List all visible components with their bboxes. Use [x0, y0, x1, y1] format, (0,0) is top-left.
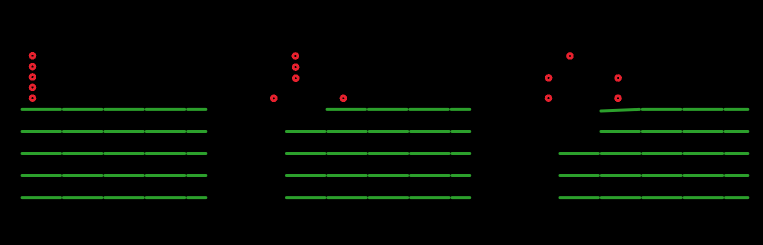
panel 1 marker 2 — [30, 64, 35, 69]
panel 2 marker 2 — [293, 65, 298, 70]
panel 2 marker 1 — [293, 54, 298, 59]
panel 1 string row 4 — [22, 174, 206, 177]
panel 1 string row 1 — [22, 108, 206, 111]
panel 3 marker 4 — [616, 76, 621, 81]
panel 3 marker 3 — [546, 96, 551, 101]
panel 2 string row 3 — [287, 152, 470, 155]
panel 1 marker 4 — [30, 85, 35, 90]
panel 1 marker 1 — [30, 53, 35, 58]
panel 3 marker 2 — [546, 76, 551, 81]
panel 3 marker 1 — [568, 54, 573, 59]
panel 2 marker 5 — [341, 96, 346, 101]
panel 3 string row 5 — [560, 196, 748, 199]
panel 3 string row 2 — [601, 130, 748, 133]
panel 2 string row 1 — [327, 108, 470, 111]
panel 2 marker 4 — [271, 96, 276, 101]
panel 2 string row 5 — [287, 196, 470, 199]
panel 3 string row 3 — [560, 152, 748, 155]
panel 1 marker 5 — [30, 96, 35, 101]
panel 3 marker 5 — [616, 96, 621, 101]
panel 2 marker 3 — [293, 76, 298, 81]
panel 1 string row 5 — [22, 196, 206, 199]
panel 3 string row 1 (sloped left end) — [601, 109, 748, 111]
panel 2 string row 4 — [287, 174, 470, 177]
panel 1 string row 2 — [22, 130, 206, 133]
panel 3 string row 4 — [560, 174, 748, 177]
panel 2 string row 2 — [287, 130, 470, 133]
panel 1 marker 3 — [30, 75, 35, 80]
panel 1 string row 3 — [22, 152, 206, 155]
